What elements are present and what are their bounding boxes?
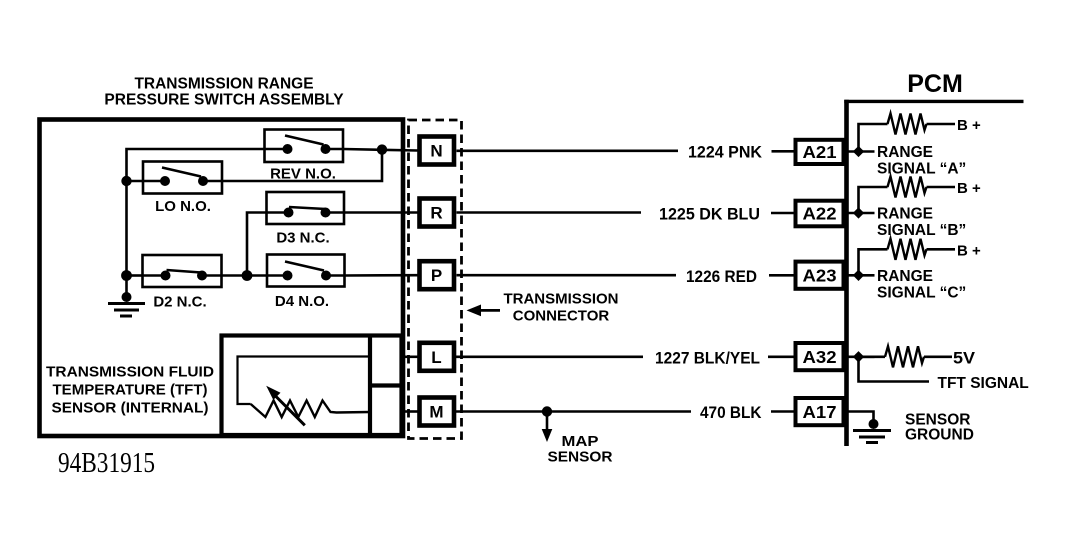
wire: A32 to node [846, 355, 875, 358]
ground (left bus) [108, 292, 145, 316]
svg-text:B +: B + [957, 180, 981, 197]
svg-text:TRANSMISSION RANGE: TRANSMISSION RANGE [134, 76, 313, 93]
pin N [420, 137, 455, 165]
wire: 470 BLK to A17 [771, 410, 794, 413]
TFT sensor box [222, 336, 402, 436]
wire: P to 1226 RED [457, 274, 677, 277]
svg-text:B +: B + [957, 117, 981, 134]
wire: 1227 BLK/YEL to A32 [768, 355, 794, 358]
svg-text:SENSOR (INTERNAL): SENSOR (INTERNAL) [52, 400, 209, 417]
pin A32 [796, 343, 844, 370]
svg-text:GROUND: GROUND [905, 427, 974, 444]
svg-text:470 BLK: 470 BLK [700, 404, 762, 422]
TFT connector divider [368, 336, 372, 436]
svg-text:TRANSMISSION FLUID: TRANSMISSION FLUID [46, 364, 214, 381]
switch LO N.O. [143, 162, 222, 194]
wire: R to 1225 DK BLU [457, 211, 642, 214]
svg-text:R: R [430, 204, 442, 223]
ground (sensor) [853, 419, 891, 443]
wire: A23 to node [846, 274, 875, 277]
node: junction REV/LO output [377, 144, 387, 154]
pin A17 [796, 398, 844, 425]
svg-text:CONNECTOR: CONNECTOR [513, 308, 610, 325]
svg-text:1225 DK BLU: 1225 DK BLU [659, 206, 760, 224]
node: bus/D2 junction [121, 270, 132, 281]
svg-text:A17: A17 [803, 402, 837, 422]
svg-text:MAP: MAP [562, 433, 599, 450]
svg-text:RANGE: RANGE [877, 144, 933, 161]
pin A23 [796, 262, 844, 289]
switch D4 N.O. [267, 255, 345, 287]
svg-text:RANGE: RANGE [877, 268, 933, 285]
svg-text:M: M [429, 403, 443, 422]
wire: LO output up to junction [222, 150, 382, 181]
svg-text:P: P [431, 266, 442, 285]
label TRANSMISSION CONNECTOR with arrow [503, 291, 618, 325]
wire: D3 output to R pin [344, 211, 418, 214]
label RANGE SIGNAL C [877, 268, 966, 302]
node A22 [853, 207, 864, 218]
svg-text:A32: A32 [803, 347, 837, 367]
wire: left bus top to REV switch [127, 149, 265, 181]
resistor pull-up C (to B+) [859, 239, 956, 275]
switch REV N.O. [265, 130, 344, 163]
label MAP SENSOR [548, 433, 613, 466]
thermistor RT1 loop [238, 357, 371, 405]
transmission range pressure switch assembly box [40, 120, 404, 437]
label RANGE SIGNAL A [877, 144, 966, 178]
label: TRANSMISSION FLUID TEMPERATURE (TFT) SENSOR (INTERNAL) [46, 364, 214, 417]
wire: TFT upper to L pin [402, 355, 418, 358]
node A21 [853, 146, 864, 157]
svg-text:LO N.O.: LO N.O. [155, 198, 211, 215]
thermistor RT1 zigzag [251, 401, 370, 418]
label SENSOR GROUND [905, 412, 974, 444]
svg-text:94B31915: 94B31915 [58, 447, 155, 479]
wire: 1224 PNK to A21 [772, 150, 794, 153]
wire: L to 1227 BLK/YEL [454, 355, 643, 358]
wire: 1225 DK BLU to A22 [771, 212, 794, 215]
transmission connector (dashed) [409, 120, 462, 439]
svg-text:D4 N.O.: D4 N.O. [275, 293, 329, 310]
wire: M to 470 BLK [454, 410, 691, 413]
svg-text:SENSOR: SENSOR [548, 449, 613, 466]
node: D3 branch junction [242, 270, 253, 281]
svg-text:5V: 5V [953, 350, 975, 368]
wire: A22 to node [846, 212, 875, 215]
node: MAP sensor tap [542, 406, 552, 416]
wire: D2 output to D4 [222, 274, 268, 277]
PCM top edge [844, 100, 1023, 103]
svg-text:TEMPERATURE (TFT): TEMPERATURE (TFT) [53, 382, 208, 399]
switch D2 N.C. [143, 255, 222, 287]
wire: A21 to node [846, 150, 875, 153]
label RANGE SIGNAL B [877, 206, 966, 240]
svg-text:L: L [431, 348, 441, 367]
pin R [420, 199, 455, 227]
svg-text:TFT SIGNAL: TFT SIGNAL [938, 375, 1029, 392]
svg-text:PRESSURE SWITCH ASSEMBLY: PRESSURE SWITCH ASSEMBLY [104, 92, 344, 109]
wire: bus to LO switch [127, 180, 144, 183]
svg-text:PCM: PCM [907, 70, 963, 98]
wire: N to 1224 PNK [457, 150, 679, 153]
switch D3 N.C. [267, 192, 345, 224]
wire: left bus vertical [125, 181, 128, 297]
wire: 1226 RED to A23 [769, 274, 794, 277]
resistor pull-up A (to B+) [859, 114, 956, 152]
node: left bus LO junction [121, 176, 131, 186]
wire: A17 to sensor ground [848, 412, 874, 425]
resistor pull-up B (to B+) [859, 177, 956, 214]
pin A22 [796, 201, 844, 227]
svg-text:RANGE: RANGE [877, 206, 933, 223]
node A32 [853, 351, 864, 362]
title: TRANSMISSION RANGE PRESSURE SWITCH ASSEMBLY [104, 76, 344, 109]
pin A21 [796, 140, 844, 164]
PCM left wall [844, 100, 849, 446]
pin L [420, 343, 455, 371]
pin P [420, 261, 455, 289]
svg-text:D3 N.C.: D3 N.C. [276, 230, 329, 247]
wire: bus to D2 [127, 274, 143, 277]
svg-text:SIGNAL “C”: SIGNAL “C” [877, 285, 966, 302]
svg-text:D2 N.C.: D2 N.C. [153, 294, 206, 311]
wire: TFT signal branch [859, 357, 930, 382]
svg-text:A23: A23 [803, 266, 837, 286]
thermistor arrow [266, 386, 305, 426]
svg-text:A22: A22 [803, 204, 837, 224]
svg-text:1224 PNK: 1224 PNK [688, 144, 762, 162]
svg-text:B +: B + [957, 242, 981, 259]
wire: D3 branch vertical [247, 213, 267, 276]
wire: D4 output to P pin [345, 274, 418, 277]
resistor 5V pull-up [859, 346, 953, 367]
wire: TFT lower to M pin [402, 410, 418, 413]
node A23 [853, 270, 864, 281]
svg-text:A21: A21 [803, 142, 837, 162]
svg-text:TRANSMISSION: TRANSMISSION [503, 291, 618, 308]
pin M [420, 398, 455, 426]
svg-text:1227 BLK/YEL: 1227 BLK/YEL [655, 350, 760, 368]
svg-text:N: N [430, 142, 442, 161]
svg-text:1226 RED: 1226 RED [686, 268, 757, 286]
wire: REV output to N pin [343, 149, 418, 151]
wire: MAP sensor arrow [542, 412, 553, 443]
